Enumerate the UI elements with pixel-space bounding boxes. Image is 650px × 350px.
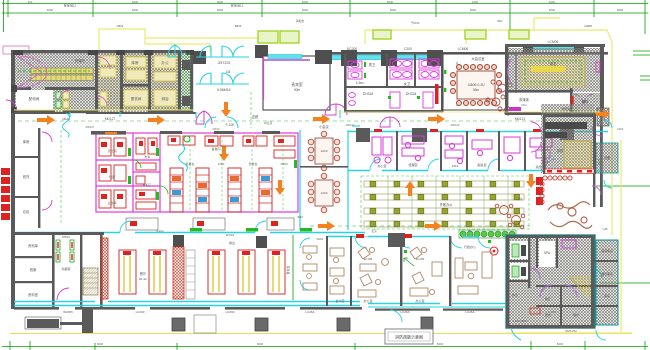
svg-text:DH318: DH318	[363, 92, 374, 96]
block hatched floor	[508, 237, 594, 327]
bottom office labels	[335, 244, 476, 303]
svg-text:8400: 8400	[217, 0, 224, 4]
svg-text:DH318: DH318	[406, 92, 417, 96]
svg-text:水吧台: 水吧台	[561, 106, 570, 111]
dimension grid bottom	[2, 341, 648, 350]
svg-text:C203: C203	[617, 127, 624, 131]
svg-text:更衣: 更衣	[545, 312, 551, 317]
svg-text:DC200: DC200	[347, 47, 357, 51]
canteen top wall doors arcs	[120, 221, 266, 232]
right wing arcs	[592, 126, 602, 195]
canteen top cyan wall	[14, 232, 365, 234]
plants row green	[460, 231, 515, 237]
svg-text:男卫: 男卫	[369, 62, 376, 67]
svg-text:8400: 8400	[47, 8, 54, 12]
svg-text:LC263: LC263	[136, 310, 145, 314]
canteen dark column right	[256, 236, 267, 248]
office labels	[377, 162, 544, 169]
orange down arrow right of open office	[526, 174, 536, 188]
red bar near top-right	[571, 96, 574, 106]
svg-text:档案: 档案	[30, 267, 37, 272]
svg-text:B#1: B#1	[498, 19, 503, 23]
svg-text:保管库房: 保管库房	[601, 248, 613, 253]
svg-text:切配: 切配	[109, 174, 115, 179]
svg-text:经理室: 经理室	[408, 162, 417, 167]
kitchen green door bits	[128, 148, 297, 200]
svg-text:8-1C2: 8-1C2	[156, 229, 164, 233]
green deco conference	[444, 56, 509, 92]
lounge wavy sofas brown	[548, 202, 592, 229]
bottom-left exterior stair structure	[27, 307, 93, 333]
multipurpose room walls	[263, 56, 330, 110]
svg-text:MT02: MT02	[62, 235, 70, 239]
yellow tinted furniture hatch overlay	[98, 54, 180, 110]
bottom office desks tan cluster C	[410, 247, 442, 296]
office desks magenta cluster4	[472, 137, 520, 161]
svg-text:8400: 8400	[217, 8, 224, 12]
servery green dashed lines	[190, 140, 283, 210]
svg-text:1A03: 1A03	[320, 149, 327, 153]
svg-text:S015: S015	[597, 158, 601, 165]
green dashed inner	[525, 61, 581, 82]
svg-text:安全出口: 安全出口	[64, 3, 77, 8]
toilet block walls	[344, 54, 444, 113]
extra arrows target has up arrow near x408 y186	[405, 181, 415, 196]
entrance inner arcs cyan right	[298, 78, 326, 88]
left small rooms walls	[14, 128, 40, 228]
svg-text:MD123: MD123	[451, 123, 460, 127]
magenta arc left corridor	[6, 100, 52, 210]
block teal outline	[506, 235, 595, 328]
core hatched floor	[13, 52, 193, 113]
svg-text:茶水: 茶水	[517, 197, 523, 201]
svg-text:会计室: 会计室	[335, 298, 344, 303]
top wall columns	[315, 44, 584, 66]
tiny top band labels	[117, 19, 593, 28]
pantry counters dark	[545, 122, 587, 138]
svg-text:1250: 1250	[218, 162, 225, 166]
green thresholds on canteen wall	[190, 228, 312, 231]
bottom-left room walls	[11, 232, 104, 308]
exterior red sign column	[1, 168, 10, 220]
svg-text:C200: C200	[404, 47, 412, 51]
lockers red/green	[56, 235, 74, 271]
svg-text:办公室: 办公室	[363, 298, 372, 303]
svg-text:8400: 8400	[390, 8, 397, 12]
office partitions vertical	[356, 128, 574, 171]
svg-text:设备: 设备	[604, 155, 611, 160]
kitchen green arcs	[133, 160, 168, 194]
svg-text:安全出口: 安全出口	[231, 3, 244, 8]
orange arrow entrance down	[221, 102, 231, 117]
olive chairs grid	[370, 181, 520, 227]
svg-text:F112: F112	[452, 164, 459, 168]
corridor orange arrows right	[37, 109, 610, 125]
magenta door arcs core	[59, 57, 110, 106]
svg-text:B#03: B#03	[235, 24, 242, 28]
bottom-left room labels	[28, 243, 39, 297]
bottom wall labels	[63, 310, 556, 314]
svg-text:14800×1.5U: 14800×1.5U	[467, 83, 485, 87]
elevator green shaft	[181, 53, 191, 110]
svg-text:F-10E: F-10E	[226, 123, 235, 127]
svg-text:8400: 8400	[437, 342, 444, 346]
white room electrical	[16, 90, 53, 111]
svg-text:更衣间: 更衣间	[131, 96, 142, 101]
svg-text:阅览: 阅览	[550, 61, 557, 66]
media room white	[509, 93, 540, 112]
svg-text:8400: 8400	[617, 8, 624, 12]
kitchen top dark wall segments	[91, 131, 280, 135]
conference walls	[443, 54, 516, 110]
offices cyan top band	[348, 131, 608, 133]
svg-text:900: 900	[28, 0, 33, 4]
bottom office desks tan cluster 0	[303, 246, 317, 290]
pantry walls	[543, 114, 596, 174]
office door arcs bottom cyan	[370, 159, 556, 170]
green beds	[512, 244, 519, 277]
svg-text:W2365: W2365	[63, 310, 73, 314]
office desks magenta cluster3	[445, 136, 463, 164]
stair flight yellow	[31, 68, 93, 81]
svg-text:女卫: 女卫	[404, 81, 411, 86]
dimension text top	[28, 0, 624, 12]
svg-text:消防疏散示意图: 消防疏散示意图	[395, 334, 423, 340]
svg-text:1F106: 1F106	[416, 257, 425, 261]
kitchen red equipment left	[99, 138, 157, 209]
reading room walls	[505, 44, 605, 115]
svg-text:8400: 8400	[557, 342, 564, 346]
svg-text:W2C372: W2C372	[565, 329, 577, 333]
magenta deco block top	[562, 240, 576, 248]
reading table yellow hatch	[521, 57, 585, 86]
svg-text:库房: 库房	[131, 60, 139, 65]
svg-text:茶歇: 茶歇	[557, 148, 564, 153]
svg-text:大会议室: 大会议室	[471, 56, 485, 61]
entrance-left column	[193, 51, 206, 64]
corridor magenta arcs	[380, 117, 400, 127]
svg-text:8400: 8400	[132, 8, 139, 12]
svg-text:1B201: 1B201	[62, 117, 70, 121]
svg-text:SPA: SPA	[544, 251, 551, 255]
bottom offices door arcs top	[355, 236, 490, 248]
svg-text:JM7225: JM7225	[218, 61, 231, 65]
right wing small room hatched	[596, 143, 618, 173]
svg-text:走廊: 走廊	[252, 114, 259, 119]
green wall canteen right	[292, 235, 294, 300]
serving window boxes	[126, 218, 294, 230]
svg-text:8400: 8400	[302, 0, 309, 4]
svg-text:前厅: 前厅	[545, 296, 551, 301]
top wall line	[330, 52, 608, 55]
bottom yellow ceiling line	[10, 333, 632, 335]
svg-text:8-T0E8: 8-T0E8	[561, 112, 571, 116]
svg-text:烹饪间: 烹饪间	[107, 148, 116, 153]
open office green dashed boundary	[361, 176, 529, 229]
svg-text:LC263: LC263	[226, 310, 235, 314]
svg-text:8400: 8400	[387, 0, 394, 4]
magenta butterfly corridor	[196, 111, 212, 124]
svg-text:LCM06: LCM06	[458, 47, 469, 51]
core text labels	[29, 58, 169, 101]
small fixtures room below	[56, 92, 61, 108]
round tables lounge upper	[495, 204, 525, 229]
svg-text:8400: 8400	[549, 0, 556, 4]
svg-text:LC26A: LC26A	[305, 310, 314, 314]
svg-text:资料室: 资料室	[28, 292, 39, 297]
svg-text:休闲区: 休闲区	[544, 237, 552, 241]
svg-text:L2B: L2B	[603, 227, 608, 231]
kitchen upper-right red equipment	[168, 136, 295, 158]
right side green dims	[596, 51, 650, 283]
meeting rooms walls cyan	[300, 130, 348, 230]
desk outlines tan	[364, 181, 524, 227]
svg-text:干#J02: 干#J02	[411, 21, 420, 25]
svg-text:W201: W201	[316, 237, 324, 241]
svg-text:LC26A: LC26A	[465, 310, 474, 314]
left corridor green dashed	[60, 130, 62, 225]
svg-text:1#走道: 1#走道	[264, 121, 273, 125]
block small room labels	[512, 292, 579, 323]
center white room	[539, 241, 555, 267]
svg-text:售饭台: 售饭台	[285, 265, 290, 274]
svg-text:36m: 36m	[473, 88, 480, 92]
green dashed vertical at entrance	[250, 92, 252, 128]
left rooms labels	[23, 139, 30, 214]
chartreuse skylight rects	[258, 30, 529, 43]
window labels top	[347, 40, 559, 51]
yellow ceiling line over corridor	[14, 109, 193, 111]
conference table	[457, 71, 495, 99]
svg-text:粗加工: 粗加工	[142, 182, 151, 187]
svg-text:收货: 收货	[23, 174, 30, 179]
svg-text:8400: 8400	[132, 0, 139, 4]
treatment rooms white	[510, 241, 528, 259]
svg-text:K08M15: K08M15	[217, 88, 230, 92]
svg-text:售餐台: 售餐台	[185, 161, 194, 166]
svg-text:AB06: AB06	[280, 162, 288, 166]
svg-text:办公室: 办公室	[415, 298, 424, 303]
svg-text:2400: 2400	[472, 0, 479, 4]
bottom offices cyan top wall	[326, 236, 478, 238]
svg-text:W-5C2: W-5C2	[226, 233, 235, 237]
pantry yellow table	[564, 141, 591, 168]
red door markers bottom offices	[356, 234, 412, 238]
cyan serving S-curve	[179, 144, 188, 171]
bottom office desks tan cluster D (executive)	[455, 252, 492, 294]
magenta arcs pantry left	[531, 122, 541, 152]
entrance outer door arcs cyan	[196, 46, 249, 84]
bottom office desks tan cluster A	[330, 248, 344, 294]
bottom corridor green dashed	[310, 225, 530, 227]
svg-text:配电间: 配电间	[29, 96, 40, 101]
svg-text:LC26A: LC26A	[400, 310, 409, 314]
bottom wall gray segments	[14, 307, 503, 311]
small rooms right of media	[573, 93, 600, 112]
yellow desks room1	[100, 56, 176, 106]
svg-text:保管库房: 保管库房	[601, 271, 613, 276]
svg-text:书报架: 书报架	[61, 266, 70, 271]
exterior columns bottom	[172, 317, 433, 331]
offices cyan bottom wall with doors	[348, 170, 600, 172]
block inner door red	[530, 308, 540, 314]
magenta arc bottom-left	[57, 288, 69, 300]
purple arcs block	[530, 268, 577, 297]
svg-text:行政办公: 行政办公	[464, 244, 476, 249]
svg-text:8400: 8400	[302, 8, 309, 12]
svg-text:MD127: MD127	[105, 117, 116, 121]
svg-text:W03: W03	[297, 215, 303, 219]
magenta border multipurpose	[263, 59, 310, 61]
red shelf strip left	[101, 238, 108, 299]
svg-text:售餐台: 售餐台	[248, 161, 257, 166]
toilet stalls and fixtures magenta	[348, 59, 439, 108]
svg-text:30m: 30m	[294, 88, 301, 92]
magenta arc lower	[325, 104, 347, 115]
meeting rooms divider	[300, 166, 348, 168]
svg-text:MD127: MD127	[86, 125, 95, 129]
svg-text:LCM06: LCM06	[548, 40, 559, 44]
cyan bits right of block	[390, 310, 606, 340]
orange down arrow corridor mid	[219, 146, 285, 195]
corridor door arcs cyan	[63, 113, 239, 137]
svg-text:主食库: 主食库	[107, 200, 116, 205]
svg-text:副总室: 副总室	[477, 162, 486, 167]
green screen dashed	[456, 62, 458, 106]
canteen tables x5	[119, 250, 285, 294]
office desks magenta cluster2	[402, 136, 424, 161]
grid label tags	[64, 3, 244, 8]
svg-text:餐厅: 餐厅	[140, 271, 147, 276]
entrance texts	[217, 61, 230, 92]
yellow ceiling outline top-right	[365, 18, 632, 333]
elevator cars	[182, 60, 190, 70]
bar chairs red circles	[540, 176, 572, 204]
scattered tiny labels	[86, 109, 624, 241]
core outer walls	[11, 50, 193, 113]
svg-text:垃圾: 垃圾	[23, 209, 30, 214]
pantry hatched	[541, 104, 594, 173]
svg-text:洗消: 洗消	[144, 154, 150, 159]
bottom office desks tan cluster B	[358, 247, 388, 297]
small X room right	[597, 108, 609, 126]
block walls	[506, 235, 595, 328]
right wing walls	[593, 112, 603, 207]
svg-text:N#02: N#02	[117, 24, 124, 28]
svg-text:储物: 储物	[582, 99, 589, 104]
tiny bottom dim texts	[97, 342, 564, 346]
kitchen boundary magenta	[96, 133, 298, 212]
green marker bottom offices	[404, 240, 491, 253]
svg-text:小会议: 小会议	[319, 124, 329, 129]
svg-text:L2A-C505: L2A-C505	[513, 319, 527, 323]
svg-text:92.4m: 92.4m	[139, 277, 148, 281]
yellow ceiling bulkhead outline top-left	[99, 29, 258, 53]
cyan marks right wing	[604, 120, 612, 188]
svg-text:C8: C8	[226, 70, 231, 74]
svg-text:走道: 走道	[371, 229, 377, 233]
pantry red/white strip	[545, 169, 594, 174]
svg-text:理疗: 理疗	[573, 312, 579, 317]
svg-text:MT02: MT02	[213, 127, 220, 131]
yellow wedge	[570, 277, 589, 298]
green bits toilets	[364, 62, 420, 99]
left wall lower	[11, 113, 15, 309]
bottom corridor orange arrow	[425, 221, 442, 231]
svg-text:17m: 17m	[521, 103, 527, 107]
svg-text:贵宾室: 贵宾室	[291, 82, 303, 87]
svg-text:办公室: 办公室	[377, 163, 386, 168]
office desks magenta cluster5	[530, 138, 552, 165]
svg-text:MD121: MD121	[515, 117, 526, 121]
teal door marks right strip	[594, 270, 602, 278]
yellow table core	[531, 66, 565, 72]
svg-text:8400: 8400	[257, 342, 264, 346]
svg-text:库房: 库房	[604, 293, 610, 298]
column at entrance right	[255, 45, 268, 58]
svg-text:备餐间: 备餐间	[211, 146, 220, 151]
svg-text:开敞办公: 开敞办公	[440, 202, 454, 207]
office door red marks	[374, 129, 541, 132]
conference chairs	[451, 65, 502, 106]
kitchen labels	[107, 146, 288, 205]
svg-text:MD122: MD122	[346, 123, 355, 127]
cyan butterfly door core top	[168, 45, 182, 57]
svg-text:淋浴: 淋浴	[161, 96, 169, 101]
meeting table 1	[308, 131, 340, 171]
svg-text:多媒体: 多媒体	[519, 97, 530, 102]
cyan window band top	[328, 45, 575, 60]
svg-text:货梯厅: 货梯厅	[75, 58, 86, 63]
corridor cyan stub walls	[70, 110, 360, 126]
svg-text:B6: B6	[468, 229, 472, 233]
office desks magenta cluster1	[372, 137, 392, 163]
toilet texts	[356, 62, 417, 96]
canteen right door arcs cyan	[300, 238, 310, 290]
meeting table 2	[308, 173, 340, 213]
stair bottom-left tan	[83, 268, 98, 295]
svg-text:1A04: 1A04	[320, 191, 327, 195]
svg-text:休息: 休息	[512, 292, 518, 297]
red vending strip	[536, 177, 543, 205]
svg-text:8400: 8400	[97, 342, 104, 346]
svg-text:1F105: 1F105	[364, 257, 373, 261]
pink tag rect far left	[3, 46, 29, 54]
small labels corridor	[105, 114, 526, 127]
corridor south wall of top band	[14, 112, 196, 114]
stair door arc magenta	[17, 56, 47, 88]
svg-text:L2B06: L2B06	[584, 24, 593, 28]
dimension grid top lines	[2, 0, 648, 34]
servery striped counters	[170, 168, 272, 212]
svg-text:库房: 库房	[23, 139, 30, 144]
magenta deco top-right	[509, 62, 600, 111]
svg-text:8400: 8400	[470, 8, 477, 12]
svg-text:消和舍: 消和舍	[296, 19, 305, 23]
reading room arcs magenta	[508, 58, 594, 104]
bottom offices columns	[326, 233, 465, 306]
svg-text:4.5m²: 4.5m²	[356, 81, 366, 85]
corridor green dashed centerline	[18, 120, 600, 122]
svg-text:办公: 办公	[161, 60, 169, 65]
labels top-right	[550, 61, 589, 104]
green dashed column lines	[388, 176, 508, 229]
svg-text:餐台: 餐台	[229, 240, 235, 245]
darker corner columns	[11, 50, 194, 113]
canteen mid column + red X shelf	[173, 235, 184, 247]
svg-text:8400: 8400	[549, 8, 556, 12]
green dashed centerline stair	[18, 70, 90, 72]
